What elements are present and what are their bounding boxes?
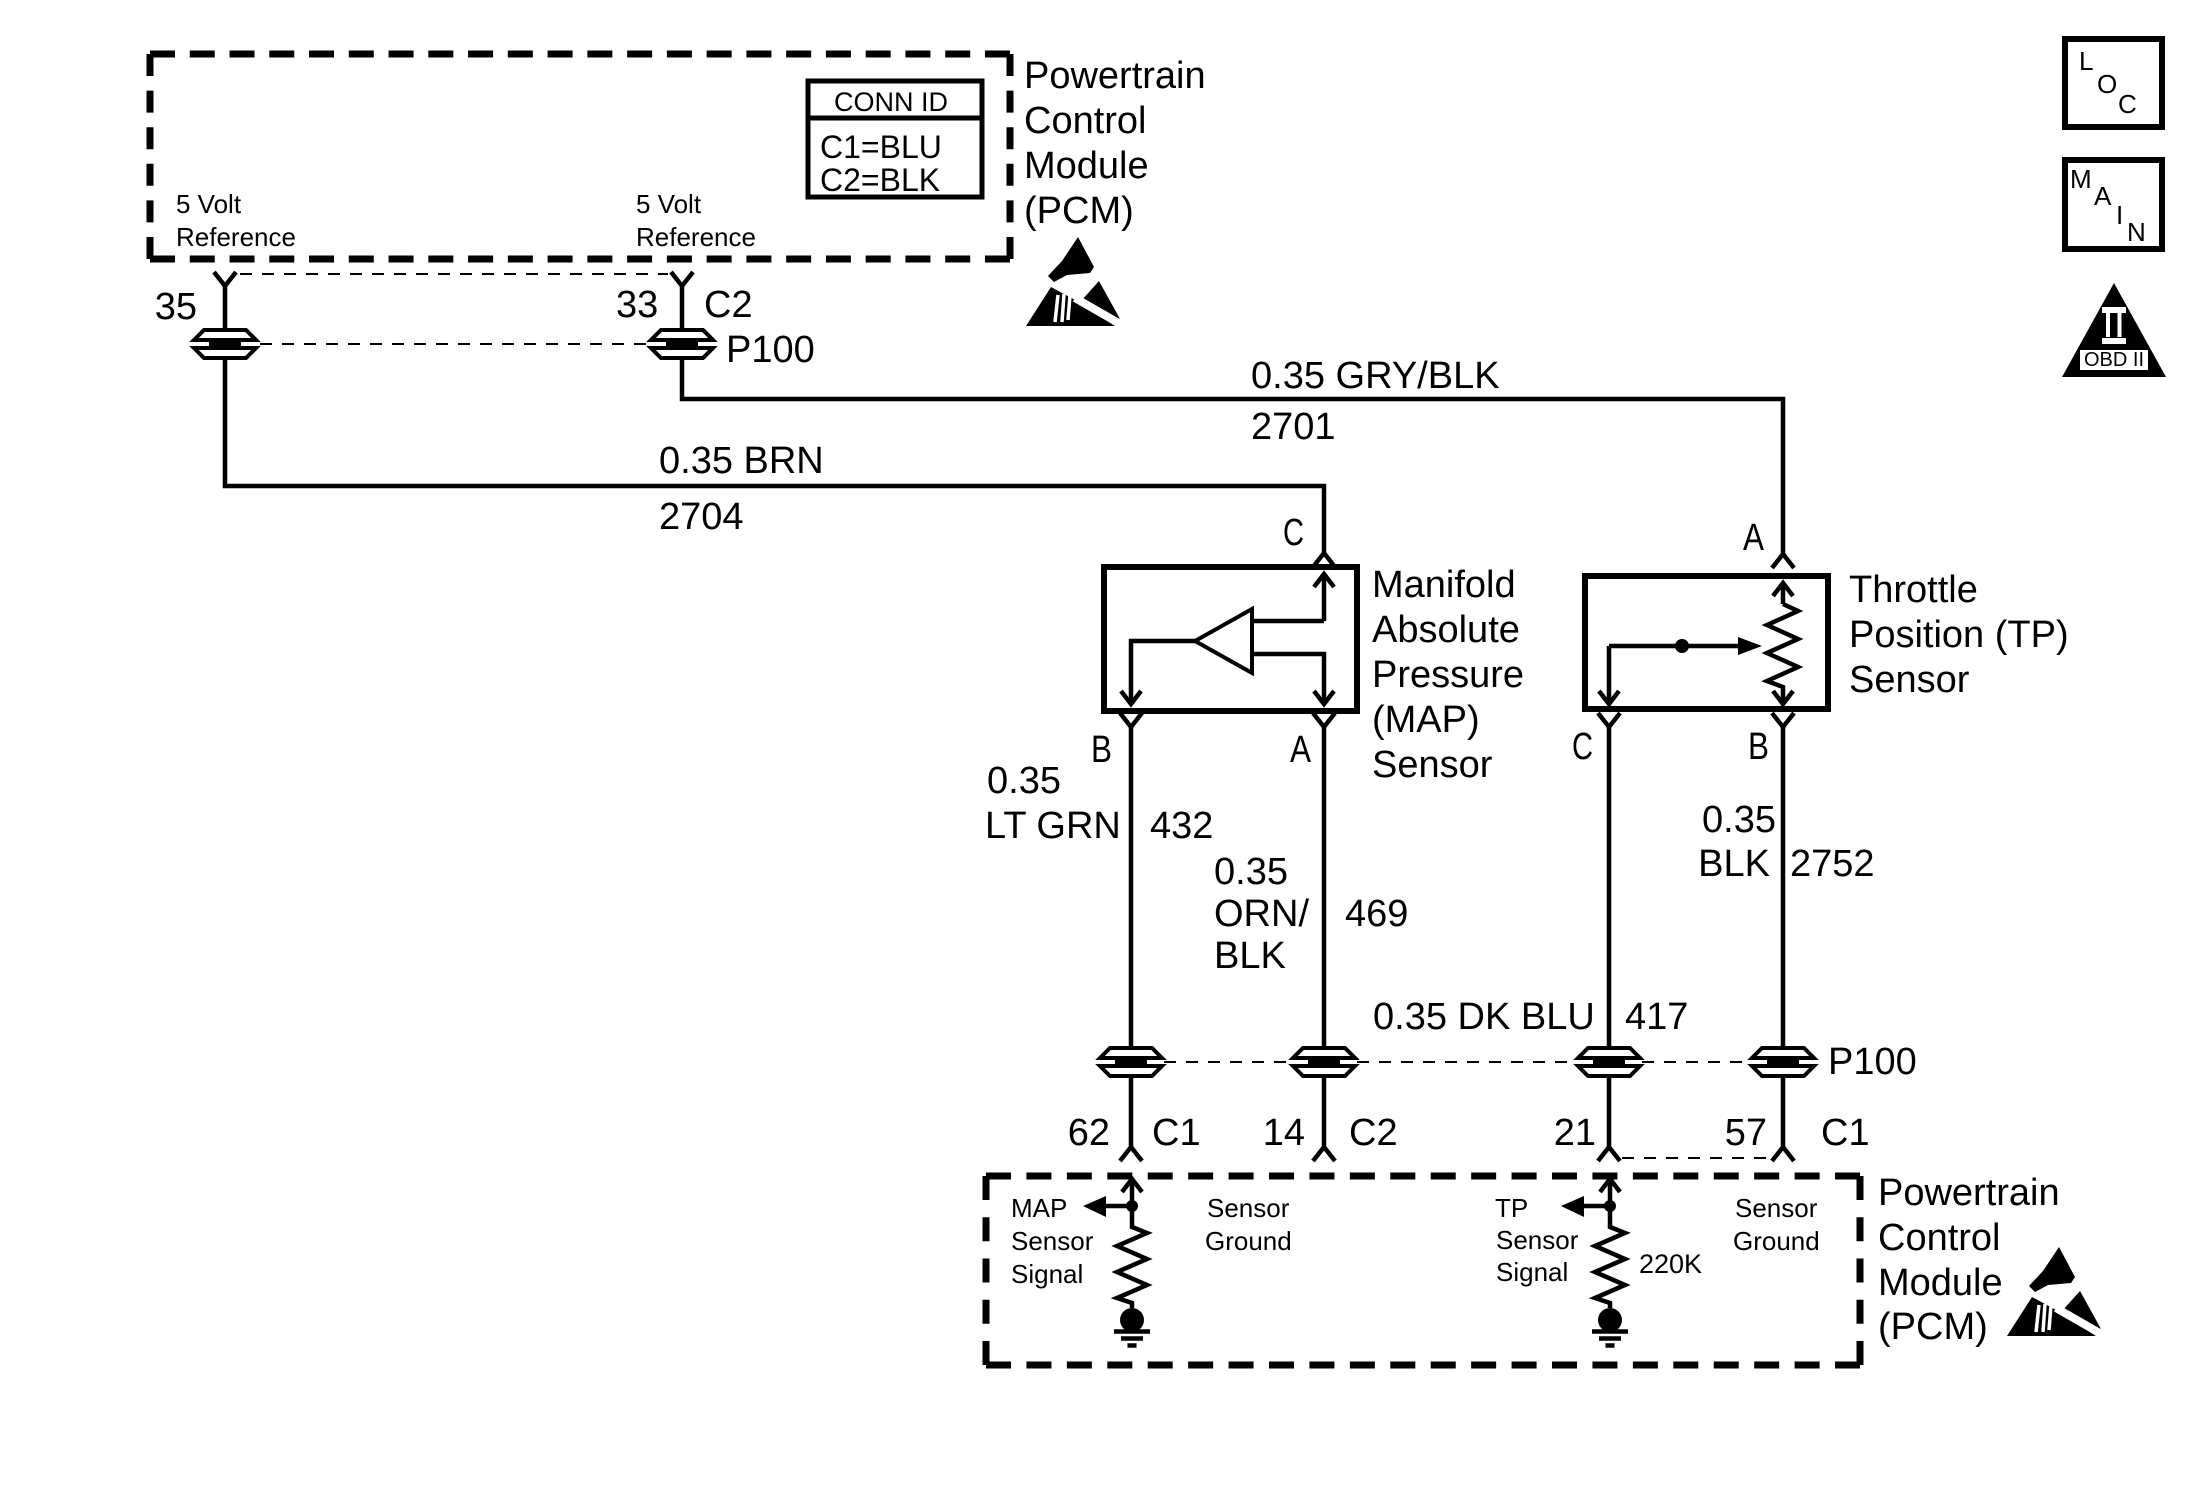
CONN ID table	[808, 81, 982, 198]
svg-text:Signal: Signal	[1496, 1257, 1568, 1287]
label: MAP Sensor Signal	[1011, 1193, 1094, 1289]
svg-text:5 Volt: 5 Volt	[176, 189, 242, 219]
inline connector P100 (pin 33)	[651, 330, 713, 358]
svg-text:Ground: Ground	[1205, 1226, 1292, 1256]
svg-text:0.35 BRN: 0.35 BRN	[659, 440, 824, 482]
inline connector P100 (wire 469)	[1293, 1048, 1355, 1076]
svg-text:Position (TP): Position (TP)	[1849, 614, 2069, 656]
label: Sensor Ground (pin 14)	[1205, 1193, 1292, 1256]
TP internal wire: wiper to C	[1607, 646, 1612, 704]
PCM pin 62 male terminal arrow	[1122, 1179, 1142, 1206]
svg-text:Sensor: Sensor	[1496, 1225, 1579, 1255]
svg-text:Ground: Ground	[1733, 1226, 1820, 1256]
svg-text:Sensor: Sensor	[1849, 659, 1970, 701]
svg-text:B: B	[1748, 726, 1769, 768]
wire: connector to PCM pin 14	[1322, 1075, 1327, 1147]
dashed connector link 14-21	[1357, 1061, 1577, 1063]
svg-text:C2: C2	[1349, 1112, 1398, 1154]
wire: 0.35 BLK 2752 (TP B to PCM 57)	[1781, 727, 1786, 1049]
svg-text:Pressure: Pressure	[1372, 654, 1524, 696]
TP pin A male terminal arrow	[1773, 583, 1793, 604]
inline connector P100 (wire 432)	[1100, 1048, 1162, 1076]
label: 0.35 BLK	[1698, 799, 1776, 885]
PCM TP signal junction dot	[1604, 1200, 1616, 1212]
inline connector P100 (wire 417)	[1578, 1048, 1640, 1076]
svg-text:Sensor: Sensor	[1011, 1226, 1094, 1256]
svg-text:Control: Control	[1878, 1217, 2001, 1259]
OBD II symbol	[2062, 283, 2166, 377]
svg-text:M: M	[2070, 164, 2092, 194]
svg-text:ORN/: ORN/	[1214, 893, 1309, 935]
wire: 0.35 DK BLU 417 (TP C to PCM 21)	[1607, 727, 1612, 1049]
MAP pin A male terminal arrow	[1314, 691, 1334, 704]
svg-text:Module: Module	[1024, 145, 1149, 187]
wire: pin 33 to connector	[680, 286, 685, 331]
Powertrain Control Module (PCM) top dashed box	[150, 54, 1010, 259]
svg-text:2704: 2704	[659, 496, 744, 538]
svg-text:Powertrain: Powertrain	[1878, 1172, 2060, 1214]
dashed connector link (terminals 35-33)	[240, 273, 668, 275]
svg-text:Reference: Reference	[636, 222, 756, 252]
wire: 0.35 GRY/BLK 2701 from connector to TP sensor pin A	[682, 357, 1783, 554]
svg-text:0.35: 0.35	[1214, 851, 1288, 893]
PCM MAP signal wire to comparator	[1104, 1204, 1132, 1209]
MAP internal wire: amplifier output to B	[1131, 641, 1195, 704]
svg-text:(PCM): (PCM)	[1024, 190, 1134, 232]
svg-text:0.35: 0.35	[987, 760, 1061, 802]
svg-text:C2: C2	[704, 284, 753, 326]
label: Powertrain Control Module (PCM) top	[1024, 55, 1206, 232]
PCM MAP signal junction dot	[1126, 1200, 1138, 1212]
svg-text:P100: P100	[1828, 1041, 1917, 1083]
pin 33 terminal	[671, 272, 693, 286]
svg-text:MAP: MAP	[1011, 1193, 1067, 1223]
PCM pull-up resistor (MAP)	[1117, 1206, 1147, 1308]
svg-text:B: B	[1091, 729, 1112, 771]
TP wiper arrowhead	[1738, 637, 1762, 655]
wire: 0.35 BRN 2704 from connector to MAP sensor pin C	[225, 357, 1324, 553]
MAP sensor pin C terminal	[1313, 553, 1335, 567]
MAIN reference symbol	[2065, 160, 2162, 249]
svg-text:C1: C1	[1821, 1112, 1870, 1154]
PCM pin 62 terminal	[1120, 1147, 1142, 1161]
MAP internal wire: amplifier to A	[1252, 654, 1324, 704]
label: 0.35 LT GRN	[985, 760, 1121, 847]
PCM pull-up resistor 220K (TP)	[1595, 1206, 1625, 1308]
svg-text:C1=BLU: C1=BLU	[820, 129, 942, 165]
MAP amplifier triangle	[1195, 609, 1252, 673]
svg-text:2701: 2701	[1251, 406, 1336, 448]
svg-text:Sensor: Sensor	[1735, 1193, 1818, 1223]
svg-text:Throttle: Throttle	[1849, 569, 1978, 611]
Powertrain Control Module (PCM) bottom dashed box	[986, 1176, 1860, 1365]
wire: connector to PCM pin 21	[1607, 1075, 1612, 1147]
svg-text:Powertrain: Powertrain	[1024, 55, 1206, 97]
dashed connector link (connectors 35-33)	[260, 343, 648, 345]
svg-text:Absolute: Absolute	[1372, 609, 1520, 651]
inline connector P100 (pin 35)	[194, 330, 256, 358]
wire: 0.35 LT GRN 432 (MAP B to PCM 62)	[1129, 727, 1134, 1049]
ESD sensitive device symbol bottom	[2007, 1247, 2103, 1336]
label: Manifold Absolute Pressure (MAP) Sensor	[1372, 564, 1524, 786]
svg-text:A: A	[1743, 517, 1765, 559]
PCM TP signal wire to comparator	[1582, 1204, 1610, 1209]
svg-text:0.35 GRY/BLK: 0.35 GRY/BLK	[1251, 355, 1500, 397]
node: 5 Volt Reference (pin 35) label	[176, 189, 296, 252]
dashed connector link 21-57	[1642, 1061, 1751, 1063]
PCM MAP signal arrowhead	[1083, 1196, 1106, 1217]
wire: pin 35 to connector	[223, 286, 228, 331]
ground (MAP pull-up)	[1114, 1308, 1150, 1346]
svg-text:OBD II: OBD II	[2084, 349, 2144, 371]
svg-text:Reference: Reference	[176, 222, 296, 252]
svg-text:LT GRN: LT GRN	[985, 805, 1121, 847]
ESD sensitive device symbol top	[1026, 237, 1122, 326]
wire: connector to PCM pin 62	[1129, 1075, 1134, 1147]
svg-text:Manifold: Manifold	[1372, 564, 1516, 606]
PCM pin 21 male terminal arrow	[1600, 1179, 1620, 1206]
MAP pin C male terminal arrow	[1314, 574, 1334, 621]
TP potentiometer resistor	[1767, 604, 1798, 704]
PCM TP signal arrowhead	[1561, 1196, 1584, 1217]
dashed connector link 62-14	[1164, 1061, 1292, 1063]
svg-text:Module: Module	[1878, 1262, 2003, 1304]
svg-text:C2=BLK: C2=BLK	[820, 162, 940, 198]
svg-text:C1: C1	[1152, 1112, 1201, 1154]
svg-text:62: 62	[1068, 1112, 1110, 1154]
svg-text:21: 21	[1554, 1112, 1596, 1154]
svg-text:CONN ID: CONN ID	[834, 87, 948, 117]
svg-text:L: L	[2079, 46, 2093, 76]
svg-text:Signal: Signal	[1011, 1259, 1083, 1289]
svg-text:220K: 220K	[1639, 1249, 1702, 1279]
PCM pin 14 terminal	[1313, 1147, 1335, 1161]
label: 0.35 ORN/BLK	[1214, 851, 1309, 977]
label: Powertrain Control Module (PCM) bottom	[1878, 1172, 2060, 1348]
wire: 0.35 ORN/BLK 469 (MAP A to PCM 14)	[1322, 727, 1327, 1049]
TP wiper junction dot	[1675, 639, 1689, 653]
svg-text:57: 57	[1725, 1112, 1767, 1154]
svg-text:C: C	[1283, 512, 1304, 554]
svg-text:P100: P100	[726, 329, 815, 371]
svg-text:I: I	[2116, 200, 2123, 230]
PCM pin 21 terminal	[1598, 1147, 1620, 1161]
MAP internal wire: C to amplifier	[1252, 619, 1324, 624]
pin 35 terminal	[214, 272, 236, 286]
svg-text:C: C	[1572, 726, 1593, 768]
svg-text:BLK: BLK	[1698, 843, 1770, 885]
svg-text:(PCM): (PCM)	[1878, 1306, 1988, 1348]
node: 5 Volt Reference (pin 33) label	[636, 189, 756, 252]
svg-text:TP: TP	[1495, 1193, 1528, 1223]
MAP pin A terminal	[1313, 713, 1335, 727]
svg-text:432: 432	[1150, 805, 1213, 847]
TP pin C terminal	[1598, 713, 1620, 727]
svg-text:417: 417	[1625, 996, 1688, 1038]
TP pin B male terminal arrow	[1773, 691, 1793, 704]
wire: connector to PCM pin 57	[1781, 1075, 1786, 1147]
svg-text:Sensor: Sensor	[1207, 1193, 1290, 1223]
svg-text:469: 469	[1345, 893, 1408, 935]
svg-text:Sensor: Sensor	[1372, 744, 1493, 786]
label: Throttle Position (TP) Sensor	[1849, 569, 2069, 701]
PCM pin 57 terminal	[1772, 1147, 1794, 1161]
svg-text:2752: 2752	[1790, 843, 1875, 885]
svg-text:BLK: BLK	[1214, 935, 1286, 977]
ground (TP pull-up)	[1592, 1308, 1628, 1346]
MAP pin B male terminal arrow	[1121, 691, 1141, 704]
LOC reference symbol	[2065, 39, 2162, 127]
svg-text:33: 33	[616, 284, 658, 326]
svg-text:35: 35	[155, 286, 197, 328]
label: TP Sensor Signal	[1495, 1193, 1579, 1287]
TP wiper wire	[1609, 644, 1740, 649]
svg-text:Control: Control	[1024, 100, 1147, 142]
svg-text:(MAP): (MAP)	[1372, 699, 1480, 741]
TP sensor box	[1585, 576, 1828, 709]
dashed connector link (pins 21-57)	[1622, 1157, 1770, 1159]
svg-text:C: C	[2118, 89, 2137, 119]
svg-text:0.35: 0.35	[1702, 799, 1776, 841]
TP pin B terminal	[1772, 713, 1794, 727]
svg-text:N: N	[2127, 217, 2146, 247]
MAP pin B terminal	[1120, 713, 1142, 727]
svg-text:A: A	[2094, 181, 2112, 211]
svg-text:A: A	[1290, 729, 1312, 771]
svg-text:5 Volt: 5 Volt	[636, 189, 702, 219]
svg-text:0.35 DK BLU: 0.35 DK BLU	[1373, 996, 1595, 1038]
label: Sensor Ground (pin 57)	[1733, 1193, 1820, 1256]
svg-text:O: O	[2097, 69, 2117, 99]
svg-text:14: 14	[1263, 1112, 1305, 1154]
TP pin C male terminal arrow	[1599, 691, 1619, 704]
inline connector P100 (wire 2752)	[1752, 1048, 1814, 1076]
TP sensor pin A terminal	[1772, 554, 1794, 568]
MAP sensor box	[1104, 567, 1357, 711]
